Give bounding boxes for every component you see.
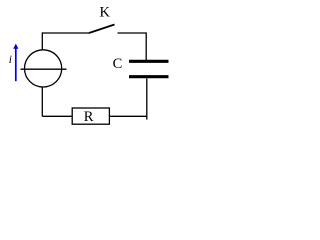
svg-text:K: K xyxy=(99,5,110,21)
svg-text:i: i xyxy=(9,54,12,66)
svg-text:C: C xyxy=(113,56,123,72)
svg-text:R: R xyxy=(84,109,94,125)
